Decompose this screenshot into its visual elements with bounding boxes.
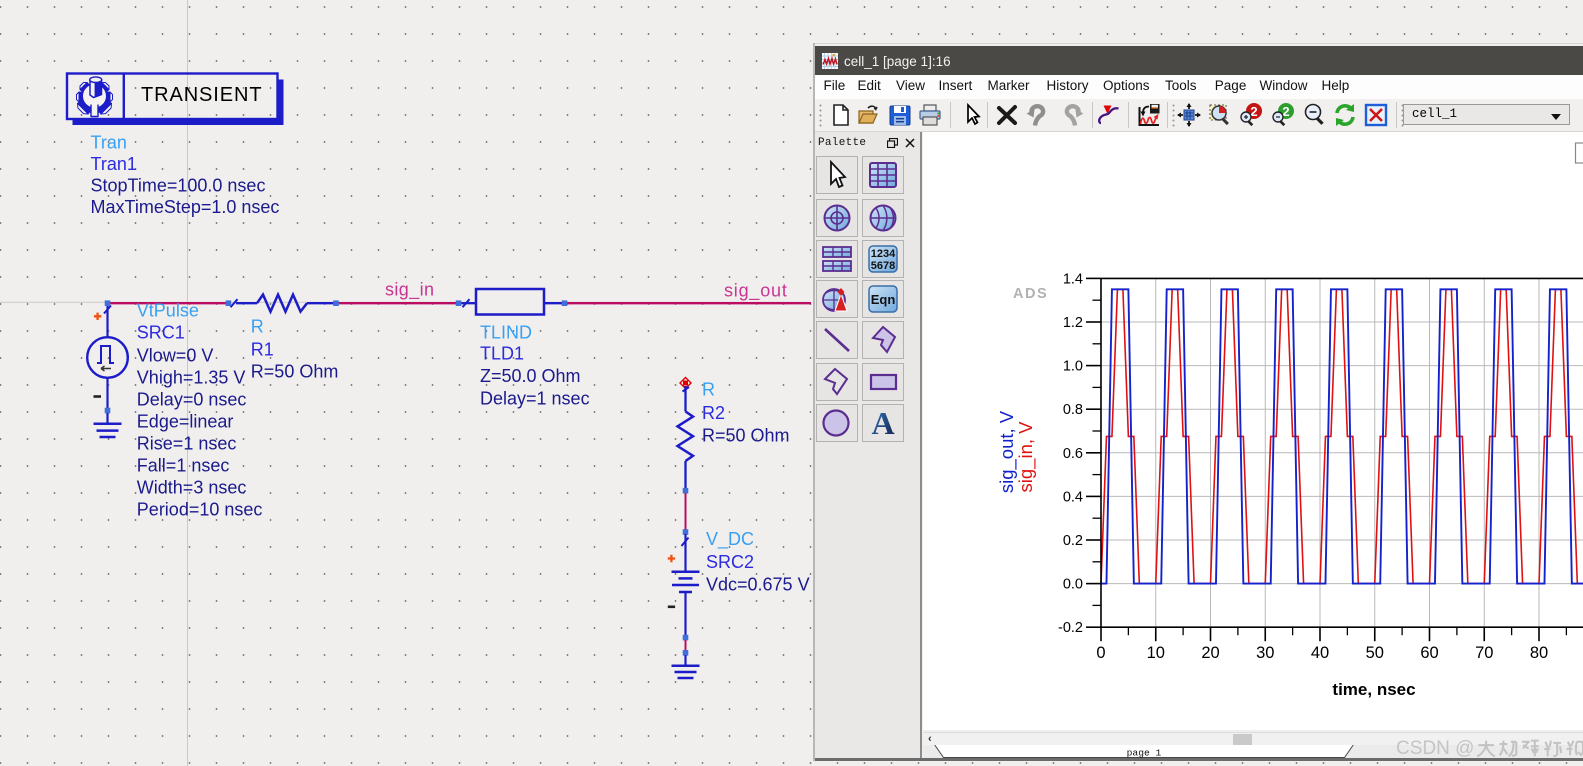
svg-text:0.6: 0.6 — [1063, 446, 1083, 462]
SRC2 labels — [706, 529, 810, 595]
svg-text:Vlow=0 V: Vlow=0 V — [137, 346, 214, 366]
svg-text:1.0: 1.0 — [1063, 359, 1083, 375]
svg-text:70: 70 — [1475, 644, 1493, 662]
wire R2 to SRC2 — [685, 493, 687, 530]
wire SRC1 to R1 — [108, 302, 227, 304]
svg-text:Fall=1 nsec: Fall=1 nsec — [137, 456, 230, 476]
svg-text:Period=10 nsec: Period=10 nsec — [137, 500, 263, 520]
svg-text:Edge=linear: Edge=linear — [137, 412, 234, 432]
svg-text:Tran: Tran — [91, 133, 127, 153]
page boundary line — [187, 0, 189, 766]
svg-text:Z=50.0 Ohm: Z=50.0 Ohm — [480, 366, 581, 386]
source V_DC SRC2 — [668, 534, 700, 636]
svg-text:TRANSIENT: TRANSIENT — [141, 84, 262, 106]
svg-text:time, nsec: time, nsec — [1332, 680, 1415, 699]
svg-text:1.2: 1.2 — [1063, 315, 1083, 331]
svg-text:A: A — [871, 408, 894, 438]
source VtPulse SRC1 — [87, 305, 128, 408]
node R1 pin2 — [333, 300, 339, 306]
svg-text:R=50 Ohm: R=50 Ohm — [702, 426, 790, 446]
svg-text:SRC1: SRC1 — [137, 323, 185, 343]
node SRC1 bottom — [105, 408, 111, 414]
svg-text:Vhigh=1.35 V: Vhigh=1.35 V — [137, 368, 246, 388]
svg-text:Delay=1 nsec: Delay=1 nsec — [480, 389, 590, 409]
node R2 bottom — [683, 488, 689, 494]
R1 labels — [251, 317, 339, 382]
node SRC2 bottom — [683, 635, 689, 641]
svg-text:sig_in, V: sig_in, V — [1015, 421, 1037, 493]
svg-text:page 1: page 1 — [1127, 748, 1162, 759]
node ground top — [683, 650, 689, 656]
svg-text:10: 10 — [1147, 644, 1165, 662]
svg-text:TLIND: TLIND — [480, 323, 532, 343]
svg-text:R2: R2 — [702, 403, 725, 423]
R2 labels — [702, 380, 790, 446]
SRC1 labels — [137, 301, 263, 520]
svg-text:1234: 1234 — [870, 248, 895, 260]
svg-text:sig_in: sig_in — [385, 280, 434, 301]
svg-text:-0.2: -0.2 — [1058, 620, 1083, 636]
origin axis line — [0, 301, 811, 303]
svg-text:Eqn: Eqn — [870, 292, 895, 307]
transmission line TLIND TLD1 — [461, 289, 562, 315]
svg-text:V_DC: V_DC — [706, 529, 754, 550]
svg-text:60: 60 — [1420, 644, 1438, 662]
svg-text:sig_out: sig_out — [724, 281, 788, 302]
svg-text:StopTime=100.0 nsec: StopTime=100.0 nsec — [91, 176, 266, 196]
wire TLD1 to right (net sig_out) — [566, 302, 811, 304]
node TLD1 pin2 — [562, 300, 568, 306]
svg-text:Rise=1 nsec: Rise=1 nsec — [137, 434, 237, 454]
svg-text:50: 50 — [1366, 644, 1384, 662]
svg-text:0.0: 0.0 — [1063, 577, 1083, 593]
resistor R1 — [231, 295, 335, 312]
svg-text:Width=3 nsec: Width=3 nsec — [137, 478, 247, 498]
svg-text:MaxTimeStep=1.0 nsec: MaxTimeStep=1.0 nsec — [91, 197, 280, 217]
svg-text:TLD1: TLD1 — [480, 344, 524, 364]
svg-text:0.4: 0.4 — [1063, 489, 1083, 505]
gear icon — [75, 77, 113, 117]
svg-text:Vdc=0.675 V: Vdc=0.675 V — [706, 575, 810, 595]
svg-text:ADS: ADS — [1013, 286, 1048, 302]
node SRC1 top — [105, 300, 111, 306]
svg-text:R: R — [702, 380, 715, 400]
svg-text:5678: 5678 — [870, 260, 894, 272]
svg-text:Delay=0 nsec: Delay=0 nsec — [137, 390, 247, 410]
unconnected pin marker R2 top — [680, 378, 691, 389]
simulation controller TRANSIENT box — [67, 74, 284, 126]
node SRC2 top — [683, 529, 689, 535]
wire R1 to TLD1 (net sig_in) — [338, 302, 457, 304]
svg-text:R: R — [251, 317, 264, 337]
svg-text:40: 40 — [1311, 644, 1329, 662]
ground below SRC1 — [94, 413, 122, 437]
wire SRC2 to ground — [685, 640, 687, 651]
svg-text:SRC2: SRC2 — [706, 552, 754, 572]
ground below SRC2 — [672, 655, 700, 678]
svg-text:1.4: 1.4 — [1063, 271, 1083, 287]
svg-text:R=50 Ohm: R=50 Ohm — [251, 362, 339, 382]
Tran controller labels — [91, 133, 280, 218]
svg-text:30: 30 — [1256, 644, 1274, 662]
node TLD1 pin1 — [456, 300, 462, 306]
svg-text:0.8: 0.8 — [1063, 402, 1083, 418]
resistor R2 — [678, 386, 694, 488]
svg-text:0: 0 — [1096, 644, 1105, 662]
svg-text:0.2: 0.2 — [1063, 533, 1083, 549]
svg-text:Tran1: Tran1 — [91, 154, 137, 174]
svg-text:R1: R1 — [251, 340, 274, 360]
node R1 pin1 — [226, 300, 232, 306]
svg-text:80: 80 — [1530, 644, 1548, 662]
svg-text:VtPulse: VtPulse — [137, 301, 199, 321]
TLD1 labels — [480, 323, 590, 409]
svg-text:20: 20 — [1201, 644, 1219, 662]
